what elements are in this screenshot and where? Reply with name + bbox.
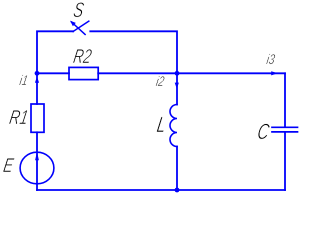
svg-text:L: L bbox=[155, 113, 168, 137]
svg-text:i1: i1 bbox=[18, 73, 29, 89]
svg-text:R1: R1 bbox=[8, 106, 30, 129]
svg-text:i3: i3 bbox=[265, 52, 276, 68]
svg-text:i2: i2 bbox=[155, 74, 166, 90]
svg-text:C: C bbox=[255, 121, 270, 145]
svg-text:R2: R2 bbox=[72, 45, 94, 68]
svg-text:E: E bbox=[2, 154, 16, 177]
svg-text:S: S bbox=[72, 0, 86, 22]
